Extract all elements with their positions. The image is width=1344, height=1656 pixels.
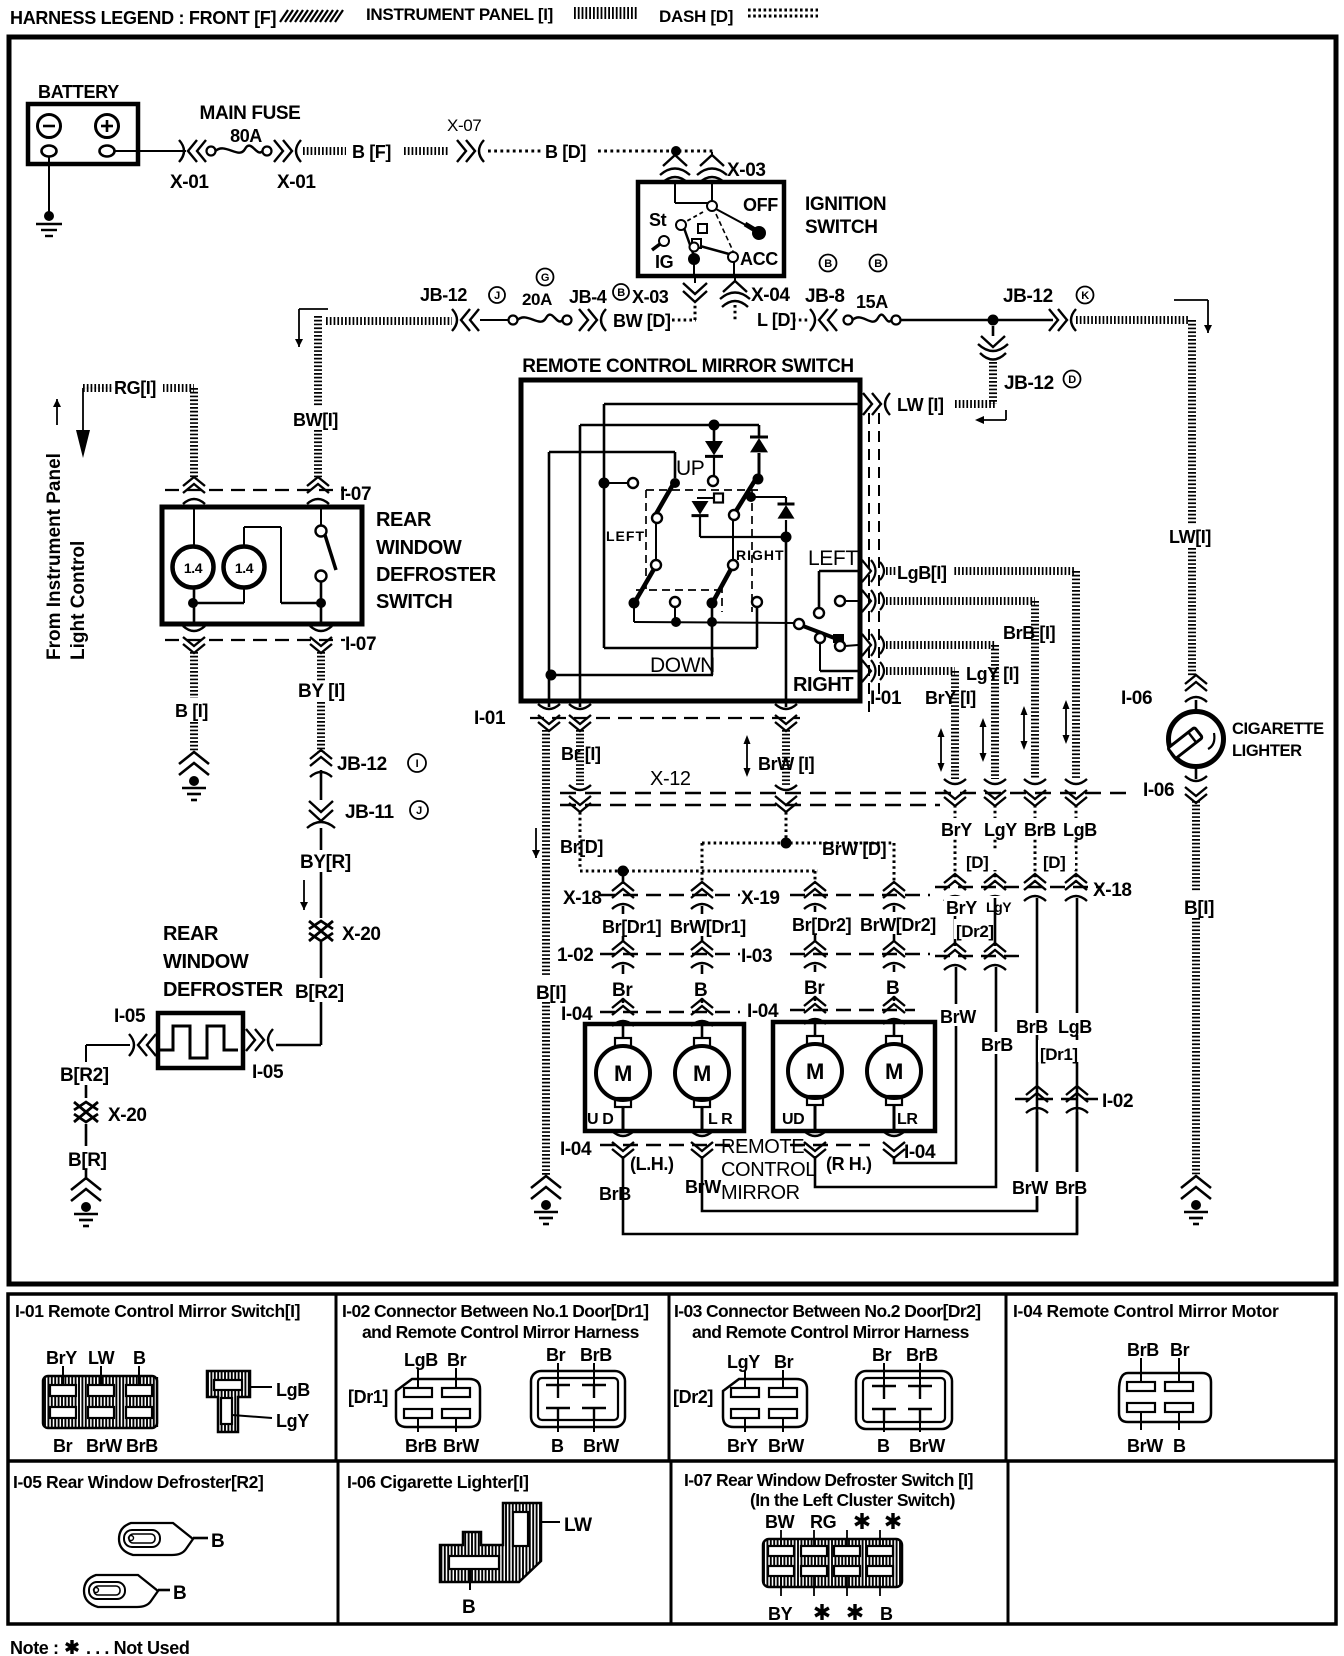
wire M4 LR route	[894, 1145, 956, 1163]
connector X-12 LgB	[1065, 779, 1087, 806]
wire hatched B[I] long down	[542, 730, 550, 976]
fuse 20A	[509, 316, 518, 325]
I-04 stems	[1140, 1358, 1142, 1382]
svg-text:X-03: X-03	[727, 160, 766, 181]
connector I-02 right dashed	[1015, 1098, 1098, 1100]
svg-text:LgB: LgB	[404, 1350, 438, 1370]
svg-text:St: St	[649, 210, 667, 230]
wire BY to JB-11	[320, 770, 323, 800]
right selector left contact lower	[815, 633, 825, 643]
svg-text:Br: Br	[1170, 1340, 1190, 1360]
svg-text:B[R]: B[R]	[68, 1150, 107, 1171]
svg-text:LgY [I]: LgY [I]	[966, 664, 1019, 684]
wire to B[R]	[85, 1124, 88, 1146]
labels BrW BrB bottom	[1010, 1172, 1094, 1196]
connector I-02 Br	[612, 941, 634, 968]
mirror switch diode D2 top-right	[758, 425, 761, 438]
connector I-04 b m4	[883, 1131, 905, 1158]
svg-text:BrB: BrB	[599, 1184, 631, 1204]
mirror switch rect B	[580, 424, 759, 427]
svg-text:B: B	[462, 1597, 475, 1618]
svg-text:BrY: BrY	[727, 1436, 758, 1456]
svg-text:RIGHT: RIGHT	[736, 547, 785, 563]
ignition pivot contact	[707, 201, 717, 211]
svg-text:I-04: I-04	[904, 1142, 936, 1163]
ignition OFF blade	[716, 209, 755, 230]
wire Br[Dr1] segment	[622, 906, 625, 941]
svg-text:X-01: X-01	[170, 172, 209, 193]
svg-text:BrW: BrW	[940, 1007, 976, 1027]
motor box RH	[773, 1022, 935, 1131]
ignition IG contact	[688, 253, 700, 265]
ground B[I] right	[1181, 1176, 1211, 1199]
svg-text:80A: 80A	[230, 126, 262, 146]
svg-text:BrY [I]: BrY [I]	[925, 688, 976, 708]
svg-text:X-04: X-04	[751, 285, 790, 306]
wire to B[R2]	[320, 942, 323, 978]
svg-text:BrB: BrB	[1055, 1178, 1087, 1198]
svg-text:[Dr2]: [Dr2]	[956, 922, 994, 941]
right selector row2 contact	[835, 596, 845, 606]
ignition sq contact 2	[692, 239, 701, 248]
label BrW[Dr2]	[858, 912, 948, 934]
wire hatched corner to LW[I]	[955, 400, 995, 408]
arrow on B[I]	[535, 828, 537, 858]
wire BrY segment	[954, 898, 957, 946]
I-01 small connector slots	[214, 1380, 242, 1390]
wire B[D] dotted	[488, 150, 541, 153]
wire B[F] hatched	[303, 147, 346, 155]
connector I-04 bottom dashed right	[790, 1144, 870, 1146]
I-07 stems	[780, 1530, 782, 1546]
svg-text:JB-12: JB-12	[1004, 373, 1054, 394]
svg-text:BrW[Dr1]: BrW[Dr1]	[670, 917, 746, 937]
svg-text:X-12: X-12	[650, 768, 691, 790]
wire y675 DOWN bottom	[551, 674, 713, 677]
svg-text:UD: UD	[782, 1111, 804, 1128]
wire BrW[Dr2] segment	[893, 906, 896, 941]
T terminal left	[670, 597, 680, 607]
svg-text:I-03 Connector Between No.2 Do: I-03 Connector Between No.2 Door[Dr2]	[674, 1301, 980, 1321]
ignition St spring	[659, 236, 669, 246]
junction dots y622	[671, 617, 681, 627]
connector X-18 LgY	[984, 874, 1006, 901]
svg-text:JB-4: JB-4	[569, 287, 607, 307]
label B[I] mid	[534, 976, 572, 1002]
svg-text:I-07: I-07	[340, 484, 371, 505]
connector I-04 m2 B	[883, 997, 905, 1024]
connector X-20 upper	[309, 921, 333, 941]
wire LgB col down	[1076, 898, 1079, 1234]
svg-text:B: B	[617, 287, 625, 299]
rear window defroster R2 element box	[158, 1013, 243, 1068]
svg-text:I-05: I-05	[252, 1062, 284, 1083]
wire Br[I] stub	[579, 701, 582, 707]
svg-text:UP: UP	[676, 457, 704, 480]
exit chevron row BrY	[862, 660, 884, 682]
svg-text:X-20: X-20	[342, 924, 381, 945]
exit chevron row LgB	[862, 560, 884, 582]
svg-text:B: B	[1173, 1436, 1186, 1456]
wire dotted BrY down	[954, 805, 957, 884]
svg-text:J: J	[494, 290, 500, 302]
mirror switch rect C	[549, 451, 675, 454]
svg-text:I-04 Remote Control Mirror: I-04 Remote Control Mirror Motor	[1013, 1301, 1279, 1321]
svg-text:K: K	[1081, 290, 1089, 302]
wire 15A to junction	[900, 319, 1053, 322]
svg-text:CONTROL: CONTROL	[721, 1159, 816, 1181]
dashed verticals right of box	[868, 413, 870, 716]
svg-text:X-20: X-20	[108, 1105, 147, 1126]
wire hatched LgB row	[886, 567, 1076, 575]
svg-text:JB-12: JB-12	[420, 285, 467, 305]
labels BrY LgY BrB LgB	[938, 818, 1098, 838]
wire BrW stub	[785, 701, 788, 707]
wire hatched BrB down	[1031, 601, 1039, 779]
svg-text:LIGHTER: LIGHTER	[1232, 742, 1302, 760]
connector I-02 dashed	[600, 953, 740, 955]
svg-text:15A: 15A	[856, 292, 888, 312]
dash [D] swatch	[748, 9, 818, 12]
connector I-07 top row dashed	[165, 489, 347, 491]
label LW[I] right	[1168, 524, 1224, 546]
wire dotted BrW[D] right branch	[790, 842, 894, 845]
svg-text:Br: Br	[53, 1436, 73, 1456]
connector Dr2 dashed right	[935, 955, 1020, 957]
label LgY [I]	[964, 663, 1030, 683]
small up arrow left margin	[56, 399, 58, 425]
connector X-12 BrB	[1024, 779, 1046, 806]
svg-text:JB-12: JB-12	[1003, 286, 1053, 307]
svg-text:L [D]: L [D]	[757, 310, 796, 330]
svg-text:M: M	[614, 1061, 632, 1086]
wire hatched BrY row	[886, 667, 955, 675]
I-06 leaders	[541, 1521, 560, 1523]
connector I-05 right chevron	[246, 1029, 273, 1051]
exit chevron row BrB	[862, 590, 884, 612]
connector I-01 BrW	[775, 704, 797, 731]
wire hatched BW[I] vertical	[314, 316, 322, 478]
I-03 left connector	[723, 1379, 807, 1427]
svg-text:X-01: X-01	[277, 172, 316, 193]
connector JB-12 K chevron	[1049, 309, 1076, 331]
wire B[R] to ground	[85, 1170, 88, 1180]
label B motor1	[692, 974, 712, 998]
svg-text:B: B	[824, 258, 832, 270]
fuse 15A	[844, 316, 853, 325]
arrow BrW[I]	[746, 741, 748, 771]
svg-text:M: M	[693, 1061, 711, 1086]
connector X-19 Br[Dr2]	[804, 882, 826, 909]
I-07 connector body	[763, 1539, 902, 1587]
wire hatched JB-12 row	[326, 317, 452, 325]
table frame	[8, 1294, 1336, 1624]
wire to lighter	[1195, 700, 1198, 712]
svg-text:B: B	[551, 1436, 564, 1456]
svg-text:B: B	[173, 1583, 186, 1604]
svg-text:DASH [D]: DASH [D]	[659, 7, 733, 26]
svg-text:I-06: I-06	[1143, 780, 1174, 801]
svg-text:LgY: LgY	[276, 1411, 309, 1431]
svg-text:X-19: X-19	[741, 888, 780, 909]
svg-text:BrW: BrW	[1012, 1178, 1048, 1198]
wire hatched Br[I] down	[576, 730, 584, 787]
svg-text:DEFROSTER: DEFROSTER	[163, 979, 284, 1001]
wire dotted L[D]	[734, 305, 737, 320]
wire dotted LgY down	[994, 805, 997, 884]
main fuse 80A	[207, 147, 216, 156]
wire dotted Br[D] down	[579, 812, 582, 868]
mirror box exit chevron LW	[863, 393, 890, 415]
mirror switch diode D4 middle-right	[753, 496, 786, 498]
fuse B circled right 2	[870, 255, 887, 272]
wire hatched to right corner	[1076, 316, 1190, 324]
svg-text:BrY: BrY	[941, 820, 972, 840]
I-05 terminal 2	[84, 1575, 158, 1607]
svg-text:. . . Not Used: . . . Not Used	[86, 1638, 189, 1656]
ignition switch internal wires	[674, 184, 676, 203]
connector I-06 top	[1185, 675, 1207, 702]
fuse G circled	[537, 269, 554, 286]
remote control mirror switch U1 box	[521, 380, 860, 701]
motor M3 UD	[814, 1020, 817, 1036]
svg-text:Light Control: Light Control	[68, 541, 89, 660]
svg-text:BY[R]: BY[R]	[300, 852, 351, 873]
wire M2 LR route	[702, 1112, 1037, 1211]
svg-text:L R: L R	[708, 1111, 733, 1128]
wire M1 UD route	[623, 1112, 1077, 1234]
defroster switch junction dots	[188, 598, 198, 608]
I-02 left stems	[417, 1368, 419, 1388]
svg-text:OFF: OFF	[743, 195, 778, 215]
right selector frame	[819, 570, 858, 573]
junction dot rect B	[709, 420, 720, 431]
right selector bottom path	[819, 643, 821, 671]
svg-text:1-02: 1-02	[557, 945, 593, 966]
svg-text:1.4: 1.4	[184, 560, 203, 576]
svg-text:LgY: LgY	[984, 820, 1017, 840]
connector X-18 dashed left	[600, 894, 740, 896]
svg-text:BrB: BrB	[580, 1345, 612, 1365]
svg-text:JB-8: JB-8	[805, 286, 845, 307]
label Br motor2	[802, 972, 830, 996]
svg-text:and Remote Control Mirror Harn: and Remote Control Mirror Harness	[362, 1322, 640, 1342]
svg-text:B: B	[694, 980, 707, 1001]
svg-text:I: I	[416, 758, 419, 770]
svg-text:LW: LW	[88, 1348, 115, 1368]
connector I-04 b m2	[691, 1131, 713, 1158]
defroster switch contact top	[316, 526, 327, 537]
svg-text:I-04: I-04	[560, 1139, 592, 1160]
svg-text:B: B	[877, 1436, 890, 1456]
ground B[I] left	[179, 752, 209, 775]
bulb 1.4 first	[173, 547, 214, 588]
svg-text:ACC: ACC	[740, 249, 778, 269]
wire LgY col down	[995, 967, 998, 1165]
svg-text:BrB: BrB	[405, 1436, 437, 1456]
I-04 connector	[1119, 1373, 1211, 1422]
svg-text:Note :: Note :	[10, 1638, 59, 1656]
svg-text:BrB [I]: BrB [I]	[1003, 623, 1055, 643]
wire hatched B[I] right down	[1192, 801, 1200, 892]
svg-text:B: B	[880, 1604, 893, 1624]
svg-text:BrY: BrY	[46, 1348, 77, 1368]
wire hatched down right side LW[I]	[1188, 320, 1196, 676]
I-02 right T pins	[546, 1384, 570, 1386]
wire Br to X-18	[622, 871, 625, 884]
svg-text:BW: BW	[765, 1512, 795, 1532]
rear window defroster switch U3 box	[162, 507, 362, 624]
wire dotted Br[Dr2] down	[814, 871, 817, 884]
svg-text:D: D	[1068, 374, 1076, 386]
svg-text:MAIN FUSE: MAIN FUSE	[200, 103, 301, 124]
svg-text:M: M	[806, 1059, 824, 1084]
connector X-03 dual chevrons	[660, 155, 690, 183]
connector I-02 LgB col	[1066, 1086, 1088, 1113]
svg-text:LW [I]: LW [I]	[897, 395, 944, 415]
wire B[R2] to defroster elbow	[320, 1002, 323, 1045]
I-03 right T pins	[872, 1385, 896, 1387]
junction node on B[D]	[671, 146, 681, 156]
label Br[Dr2]	[790, 912, 854, 934]
defroster switch wires inside	[193, 509, 195, 546]
svg-text:B [I]: B [I]	[175, 701, 208, 721]
wire B to motor1	[701, 965, 704, 1003]
connector Dr2 BrY	[944, 943, 966, 970]
label I-01 BrY [I]	[922, 687, 986, 707]
svg-text:I-05: I-05	[114, 1006, 146, 1027]
label BrB [I]	[1001, 622, 1065, 642]
battery ground	[44, 211, 54, 221]
svg-text:[Dr2]: [Dr2]	[673, 1387, 713, 1407]
dashed actuator frame	[646, 489, 758, 491]
front [F] hatch swatch	[280, 10, 343, 22]
junction BrW[D]	[781, 838, 792, 849]
labels [D] [D]	[964, 850, 998, 870]
wire middle horizontal y537	[700, 536, 790, 538]
svg-text:I-06: I-06	[1121, 688, 1152, 709]
svg-text:SWITCH: SWITCH	[805, 217, 878, 238]
svg-text:LEFT: LEFT	[606, 528, 645, 544]
connector Dr2 LgY	[984, 943, 1006, 970]
connector I-04 b m3	[804, 1131, 826, 1158]
fuse B circled right 1	[820, 255, 837, 272]
labels BrB LgB Dr1	[1014, 1013, 1098, 1035]
wire BW[I] branch elbow arrow	[299, 308, 328, 310]
svg-text:[Dr1]: [Dr1]	[348, 1387, 388, 1407]
connector JB-4 chevron	[579, 309, 606, 331]
right selector pivot	[794, 619, 804, 629]
I-01 pin stems top	[62, 1366, 64, 1385]
elbow arrow top right	[1174, 299, 1208, 301]
svg-text:B[R2]: B[R2]	[295, 982, 344, 1003]
wire dotted Br[D] horizontal	[580, 870, 818, 873]
wire lighter down	[1195, 767, 1198, 779]
svg-text:BW[I]: BW[I]	[293, 410, 338, 430]
label BrW col BrY	[938, 1004, 978, 1026]
connector X-12 Br	[569, 785, 591, 812]
wire dotted BW[D] to IG pin	[672, 319, 696, 322]
svg-text:[D]: [D]	[1043, 853, 1065, 872]
svg-text:I-05 Rear Window Defroster[: I-05 Rear Window Defroster[R2]	[13, 1472, 263, 1492]
svg-text:X-18: X-18	[563, 888, 602, 909]
I-02 right connector outer	[531, 1371, 625, 1427]
svg-text:BrB: BrB	[1127, 1340, 1159, 1360]
wire dotted BrW[D] left branch	[702, 842, 786, 845]
connector I-01 B[I]	[538, 704, 560, 731]
svg-text:RG[I]: RG[I]	[114, 378, 156, 398]
wire hatched BrY down	[951, 671, 959, 779]
svg-text:From Instrument Panel: From Instrument Panel	[44, 453, 65, 660]
svg-text:BrB: BrB	[981, 1035, 1013, 1055]
svg-text:I-03: I-03	[741, 946, 772, 967]
label Br motor1	[610, 974, 638, 998]
label LgB[I]	[896, 558, 954, 582]
motor box LH	[585, 1024, 744, 1131]
svg-text:B[I]: B[I]	[536, 983, 566, 1004]
connector I-07 bottom left	[183, 626, 205, 653]
dot on right blade	[746, 492, 756, 502]
svg-text:Br[Dr1]: Br[Dr1]	[602, 917, 661, 937]
svg-text:BrW: BrW	[1127, 1436, 1163, 1456]
connector JB-12 D below junction	[978, 336, 1008, 360]
svg-text:IGNITION: IGNITION	[805, 194, 886, 215]
wire D4 vertical down	[785, 537, 788, 701]
wire BY[R]	[320, 828, 323, 850]
label BW[I]	[292, 406, 340, 430]
svg-text:(R H.): (R H.)	[826, 1154, 872, 1174]
svg-text:BATTERY: BATTERY	[38, 82, 119, 102]
svg-text:I-04: I-04	[747, 1001, 779, 1022]
connector I-04 bottom dashed left	[600, 1144, 740, 1146]
svg-text:DEFROSTER: DEFROSTER	[376, 564, 497, 586]
wire B[R2] left down	[85, 1085, 88, 1098]
svg-text:REAR: REAR	[163, 923, 219, 945]
mirror switch right blade lower	[732, 519, 734, 561]
connector X-19 BrW[Dr2]	[883, 882, 905, 909]
svg-text:X-18: X-18	[1093, 880, 1132, 901]
svg-text:LW: LW	[564, 1515, 592, 1536]
svg-text:BW [D]: BW [D]	[613, 311, 671, 331]
svg-text:B [F]: B [F]	[352, 142, 391, 162]
I-01 small connector hatched	[207, 1371, 250, 1432]
connector X-18 LgB	[1065, 874, 1087, 901]
svg-text:BrW: BrW	[443, 1436, 479, 1456]
svg-text:1.4: 1.4	[235, 560, 254, 576]
svg-text:INSTRUMENT PANEL [I]: INSTRUMENT PANEL [I]	[366, 5, 553, 24]
svg-text:REMOTE: REMOTE	[721, 1136, 804, 1158]
connector I-04 m1 B	[691, 999, 713, 1026]
svg-text:REAR: REAR	[376, 509, 432, 531]
defroster switch contact bottom	[316, 571, 327, 582]
label Br[Dr1]	[600, 914, 664, 936]
connector I-07 bottom row dashed	[165, 639, 345, 641]
wire Br[Dr2] segment	[814, 906, 817, 941]
wire hatched BrW[I] down	[782, 730, 790, 787]
svg-text:I-01 Remote Control Mirror Swi: I-01 Remote Control Mirror Switch[I]	[15, 1301, 300, 1321]
svg-text:HARNESS LEGEND : FRONT [F]: HARNESS LEGEND : FRONT [F]	[10, 8, 276, 28]
svg-text:LR: LR	[897, 1111, 918, 1128]
connector I-03 dashed	[790, 953, 930, 955]
wire hatched B[I] left down	[190, 652, 198, 698]
svg-text:B [D]: B [D]	[545, 142, 586, 162]
connector I-04 b m1	[612, 1131, 634, 1158]
svg-text:WINDOW: WINDOW	[163, 951, 249, 973]
motor M2 LR	[701, 1022, 704, 1038]
connector I-01 dashed	[530, 717, 800, 719]
ignition ACC contact	[728, 252, 738, 262]
I-03 right connector outer	[856, 1371, 952, 1429]
